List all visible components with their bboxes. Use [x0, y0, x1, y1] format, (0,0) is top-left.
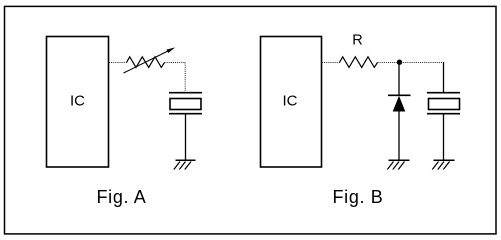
svg-text:Fig. A: Fig. A: [97, 187, 147, 207]
ground GND-B1: [387, 160, 409, 169]
diode D1: [388, 95, 411, 111]
wire R1 to node: [378, 62, 400, 64]
node junction dot: [397, 60, 402, 65]
wire X2 to ground: [443, 114, 445, 161]
variable resistor VR1 zigzag: [127, 57, 165, 68]
ground GND-B2: [432, 160, 454, 169]
wire node to crystal X2 corner: [399, 62, 444, 64]
wire corner down to crystal X1: [184, 63, 186, 93]
wire corner down to crystal X2: [443, 62, 445, 93]
IC U2 (Fig. B): [261, 37, 322, 168]
variable resistor VR1 arrow: [124, 47, 176, 73]
svg-text:IC: IC: [283, 92, 298, 109]
wire IC-A to VR1: [109, 62, 127, 64]
crystal X2: [427, 93, 460, 114]
wire node down to diode D1: [398, 63, 400, 96]
wire X1 to ground: [185, 114, 187, 161]
wire D1 to ground: [398, 112, 400, 161]
resistor R1 zigzag: [340, 57, 378, 68]
crystal X1: [169, 93, 202, 114]
wire VR1 to corner: [165, 62, 186, 64]
ground GND-A: [174, 160, 196, 169]
IC U1 (Fig. A): [47, 37, 109, 168]
svg-text:R: R: [352, 33, 362, 49]
svg-text:Fig. B: Fig. B: [333, 187, 384, 207]
svg-text:IC: IC: [70, 92, 85, 109]
wire IC-B to R1: [322, 62, 340, 64]
